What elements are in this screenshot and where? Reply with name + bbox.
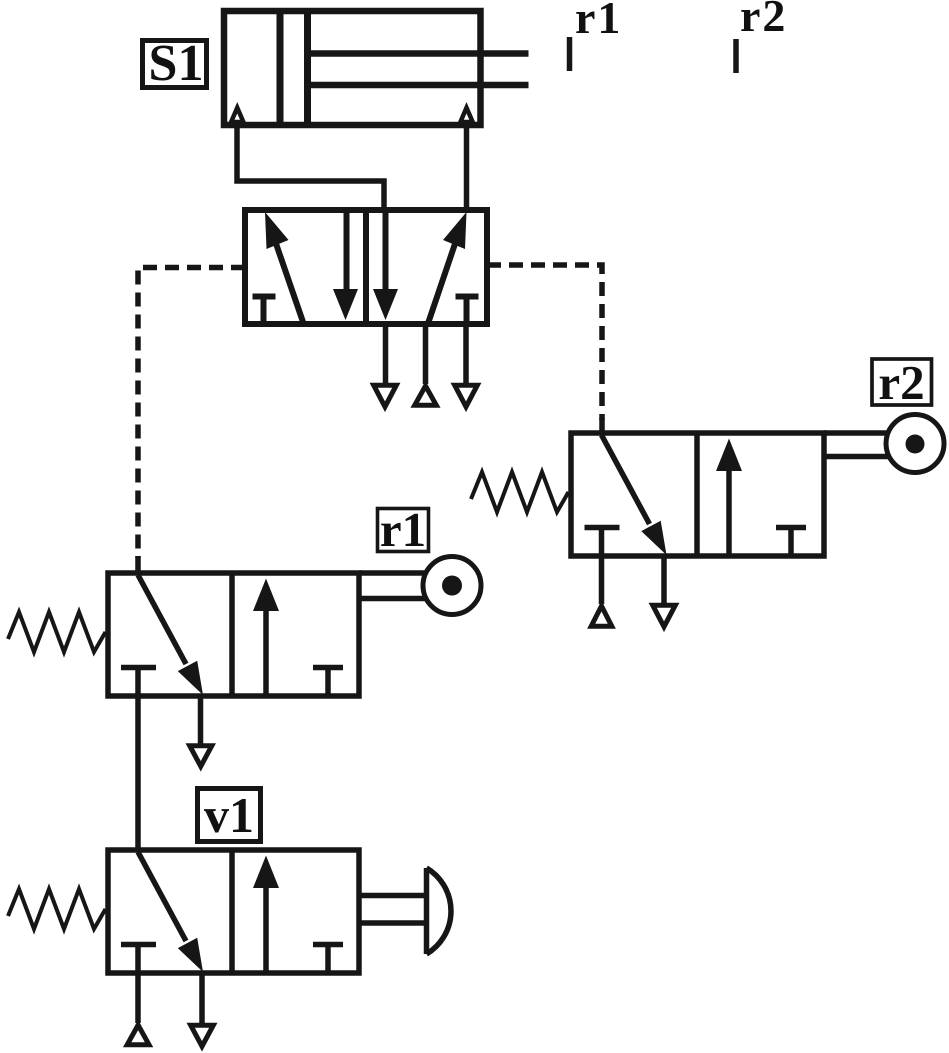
svg-text:r1: r1 (575, 0, 622, 43)
valve v1 push button stem (359, 896, 428, 924)
valve 5/2 right position blocked port T (456, 294, 479, 324)
valve r2 body (571, 433, 824, 556)
valve r2 roller lever (824, 433, 889, 457)
wire cylinder right port to valve (464, 124, 470, 212)
valve 5/2 right position down arrow (373, 210, 398, 320)
valve r2 blocked port T right (776, 528, 806, 557)
valve v1 body (108, 850, 359, 973)
valve 5/2 exhaust port 3 triangle (455, 385, 478, 407)
valve r2 exhaust triangle (653, 605, 676, 627)
valve r2 exhaust line (661, 556, 667, 615)
valve v1 diagonal flow arrow (138, 852, 203, 972)
valve r1 body (108, 573, 359, 696)
valve r1 blocked port T left (121, 668, 156, 697)
valve v1 up arrow (253, 856, 279, 974)
valve 5/2 body (245, 210, 487, 324)
valve 5/2 exhaust port 5 line (383, 324, 389, 391)
cylinder S1 piston (280, 11, 308, 125)
valve r2 roller wheel (886, 415, 944, 473)
valve 5/2 right position flow arrow (diagonal) (429, 212, 467, 322)
valve r1 blocked port T right (313, 668, 343, 697)
valve 5/2 supply port 1 triangle (415, 386, 437, 405)
valve r2 return spring (471, 472, 569, 512)
valve 5/2 left position down arrow (333, 210, 358, 320)
pilot line right stub to r2 (599, 418, 605, 434)
cylinder S1 right port arrow (460, 108, 472, 122)
pilot line left (dashed) (138, 268, 245, 559)
valve r1 exhaust line (198, 696, 204, 755)
pilot line right (dashed) (487, 265, 602, 420)
wire r1 output to v1 (135, 696, 141, 851)
label v1 box (198, 787, 261, 843)
label r1 box (378, 502, 429, 557)
valve v1 push button head (427, 868, 451, 954)
valve r2 up arrow (716, 439, 742, 557)
valve r1 diagonal flow arrow (138, 575, 203, 695)
valve r1 roller lever (359, 573, 426, 599)
valve r1 return spring (8, 612, 106, 652)
cylinder S1 left port arrow (231, 108, 243, 122)
valve v1 blocked port T right (313, 945, 343, 974)
valve r1 exhaust triangle (190, 746, 212, 767)
valve v1 return spring (8, 889, 106, 929)
valve 5/2 exhaust port 3 line (463, 324, 469, 391)
valve 5/2 left position flow arrow (diagonal) (265, 212, 303, 322)
valve v1 exhaust line (199, 973, 205, 1036)
tick mark r1 (567, 37, 573, 71)
valve r1 up arrow (253, 579, 279, 697)
valve r2 blocked port T left (585, 528, 620, 557)
valve v1 supply triangle (127, 1025, 149, 1045)
tick mark r2 (733, 39, 739, 73)
cylinder S1 body (224, 11, 481, 125)
valve r2 supply line (599, 556, 605, 604)
pilot line left stub to r1 (135, 556, 141, 574)
valve r2 supply triangle (591, 606, 612, 626)
cylinder S1 piston rod (309, 54, 529, 86)
svg-text:r2: r2 (740, 0, 787, 41)
svg-text:v1: v1 (204, 787, 254, 843)
valve v1 supply line (135, 973, 141, 1023)
valve v1 blocked port T left (121, 945, 156, 974)
svg-text:S1: S1 (149, 35, 204, 92)
wire cylinder left port to valve (237, 124, 384, 212)
svg-text:r2: r2 (878, 355, 924, 410)
valve 5/2 supply port 1 line (423, 324, 429, 384)
valve r1 roller wheel (423, 557, 481, 615)
label S1 box (143, 35, 207, 92)
valve 5/2 exhaust port 5 triangle (374, 385, 397, 407)
svg-text:r1: r1 (380, 502, 426, 557)
valve v1 exhaust triangle (191, 1025, 214, 1046)
valve 5/2 left position blocked port T (253, 294, 276, 324)
valve r2 diagonal flow arrow (602, 435, 667, 555)
label r2 box (872, 355, 932, 410)
